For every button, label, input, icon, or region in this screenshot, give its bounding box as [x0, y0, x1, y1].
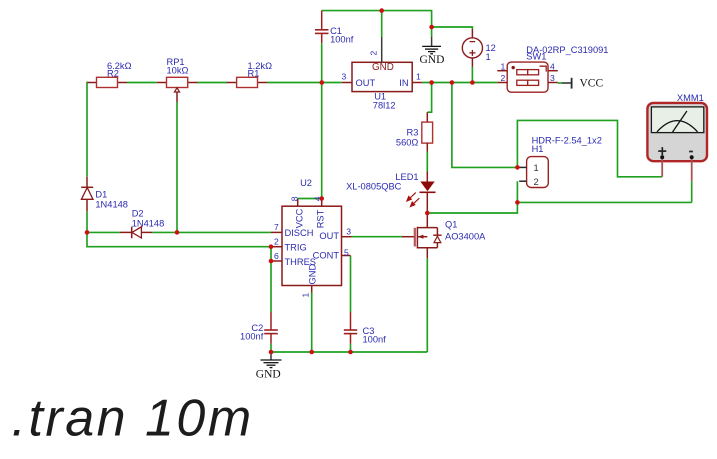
wire meter minus lead [691, 159, 693, 181]
junction dot D1 anode D2 cathode [85, 230, 90, 235]
net port VCC [562, 78, 603, 90]
junction dot H1 pin1 [515, 165, 520, 170]
junction dot top rail U1 pin2 [379, 8, 384, 13]
wire left end of main rail down to D1 [86, 83, 89, 177]
wire RP1 wiper down to D2 row [176, 102, 178, 232]
svg-text:D2: D2 [132, 209, 144, 219]
wire main rail R1 to U1 OUT [267, 82, 342, 84]
wire Q1 source down to ground rail [426, 258, 428, 352]
svg-text:1N4148: 1N4148 [95, 200, 128, 210]
diode D1 1N4148 [81, 177, 128, 212]
svg-text:CONT: CONT [313, 251, 340, 261]
wire node down and right to U2 TRIG [87, 232, 271, 246]
svg-text:4: 4 [550, 61, 555, 71]
wire node at D1 anode to D2 cathode [88, 231, 120, 233]
capacitor C1 [315, 11, 354, 45]
junction dot LED cathode Q1 drain [425, 211, 430, 216]
junction dot ground rail U2 pin1 [309, 350, 314, 355]
svg-text:2: 2 [501, 73, 506, 83]
potentiometer RP1 [157, 57, 198, 102]
wire main rail R2 to RP1 [127, 82, 157, 84]
svg-text:5: 5 [344, 247, 349, 257]
svg-text:3: 3 [550, 73, 555, 83]
wire D2 anode to RP1 wiper node to U2 DISCH [152, 231, 271, 233]
header H1 HDR-F-2.54_1x2 [519, 136, 602, 188]
wire meter minus lead lower green [691, 181, 693, 202]
svg-text:10kΩ: 10kΩ [167, 66, 189, 76]
svg-text:GND: GND [256, 369, 281, 381]
junction dot ground rail C2 [269, 350, 274, 355]
resistor R3 [396, 112, 433, 151]
svg-text:VCC: VCC [580, 78, 604, 90]
wire U2 pin8 to pin4 jumper [298, 198, 322, 200]
wire C1 bottom down to U2 pin4 [321, 43, 323, 198]
wire main rail U1 IN to SW1 pin2 [422, 82, 497, 84]
junction dot meter minus branch [515, 200, 520, 205]
svg-text:100nf: 100nf [330, 35, 354, 45]
svg-text:DISCH: DISCH [285, 228, 314, 238]
svg-text:1: 1 [534, 163, 539, 173]
ground symbol bottom GND [256, 352, 282, 381]
svg-text:1: 1 [301, 293, 311, 298]
junction dot main rail R3 branch [429, 80, 434, 85]
svg-text:GND: GND [420, 54, 445, 66]
wire U2 CONT down to C3 [350, 256, 352, 313]
svg-text:1: 1 [501, 61, 506, 71]
capacitor C2 [240, 312, 278, 344]
wire source bottom to main rail [471, 67, 473, 83]
wire R3 bottom to LED anode [426, 152, 428, 172]
transistor Q1 AO3400A [402, 220, 486, 259]
svg-text:XMM1: XMM1 [677, 93, 704, 103]
svg-text:100nf: 100nf [363, 335, 387, 345]
svg-text:U2: U2 [300, 178, 312, 188]
svg-text:OUT: OUT [356, 78, 376, 88]
junction dot main rail C1 column [320, 80, 325, 85]
wire LED cathode node to Q1 drain [426, 192, 428, 227]
svg-text:78l12: 78l12 [373, 101, 396, 111]
svg-text:3: 3 [342, 72, 347, 82]
svg-text:3: 3 [346, 227, 351, 237]
wire node B right to meter minus [517, 201, 691, 203]
LED LED1 XL-0805QBC [346, 172, 435, 207]
svg-text:2: 2 [534, 177, 539, 187]
junction dot D2 anode RP1 wiper [175, 230, 180, 235]
wire TRIG node down through THRES node to C2 [270, 247, 272, 312]
svg-text:1: 1 [416, 72, 421, 82]
svg-text:RST: RST [315, 209, 325, 228]
svg-text:D1: D1 [95, 190, 107, 200]
wire SW1 pin3 to VCC port [558, 82, 562, 84]
wire D1 anode down to node [86, 211, 88, 232]
wire H1 pin2 down then left to LED cathode node [427, 181, 517, 213]
diode D2 1N4148 [120, 209, 164, 239]
timer U2 [271, 178, 352, 297]
wire main rail RP1 to R1 [198, 82, 227, 84]
svg-text:SW1: SW1 [526, 51, 546, 61]
svg-text:Q1: Q1 [445, 220, 457, 230]
wire C2 bottom to ground rail [270, 344, 272, 352]
svg-text:TRIG: TRIG [285, 242, 307, 252]
svg-text:.tran 10m: .tran 10m [12, 390, 254, 448]
wire meter plus lead [661, 159, 663, 177]
wire U2 OUT to Q1 gate [352, 236, 402, 238]
svg-text:1: 1 [486, 52, 491, 62]
svg-text:R2: R2 [107, 69, 119, 79]
svg-text:8: 8 [290, 196, 300, 201]
svg-text:AO3400A: AO3400A [445, 232, 486, 242]
voltage source V1 12V [462, 29, 496, 67]
wire U2 pin1 down to ground rail [311, 293, 313, 353]
wire U1 pin2 up to top rail [381, 11, 383, 37]
svg-text:LED1: LED1 [395, 172, 418, 182]
resistor R2 [88, 61, 132, 88]
svg-text:H1: H1 [532, 144, 544, 154]
svg-text:2: 2 [274, 236, 279, 246]
junction dot top rail GND corner [429, 25, 434, 30]
junction dot main rail H1 branch [450, 80, 455, 85]
svg-text:IN: IN [399, 78, 408, 88]
wire H1 pin1 node loop to meter plus [517, 120, 662, 176]
svg-text:7: 7 [274, 222, 279, 232]
junction dot ground rail C3 [348, 350, 353, 355]
multimeter XMM1 [647, 93, 707, 181]
svg-text:VCC: VCC [294, 208, 304, 228]
junction dot TRIG [269, 244, 274, 249]
regulator U1 78l12 [342, 37, 423, 111]
svg-text:OUT: OUT [319, 231, 339, 241]
wire top rail C1 to GND corner to source [322, 11, 473, 29]
svg-text:XL-0805QBC: XL-0805QBC [346, 182, 402, 192]
svg-text:R1: R1 [248, 69, 260, 79]
resistor R1 [227, 61, 273, 88]
wire C3 bottom to ground rail [350, 344, 352, 352]
junction dot THRES [269, 259, 274, 264]
svg-text:6: 6 [274, 251, 279, 261]
svg-text:THRES: THRES [285, 257, 317, 267]
svg-text:R3: R3 [407, 128, 419, 138]
wire ground rail bottom [271, 351, 427, 353]
svg-text:100nf: 100nf [240, 332, 264, 342]
junction dot main rail source [470, 80, 475, 85]
wire main rail branch down to R3 with jog [427, 83, 431, 113]
junction dot U2 pin4 C1 [319, 196, 324, 201]
wire main rail branch down and right to H1 pin1 [452, 83, 518, 168]
ground symbol top GND [420, 27, 445, 66]
capacitor C3 [344, 312, 386, 345]
svg-text:GND: GND [372, 62, 394, 73]
svg-text:2: 2 [369, 51, 379, 56]
svg-text:1N4148: 1N4148 [132, 219, 165, 229]
svg-text:560Ω: 560Ω [396, 137, 419, 147]
switch SW1 DA-02RP_C319091 [497, 45, 608, 92]
